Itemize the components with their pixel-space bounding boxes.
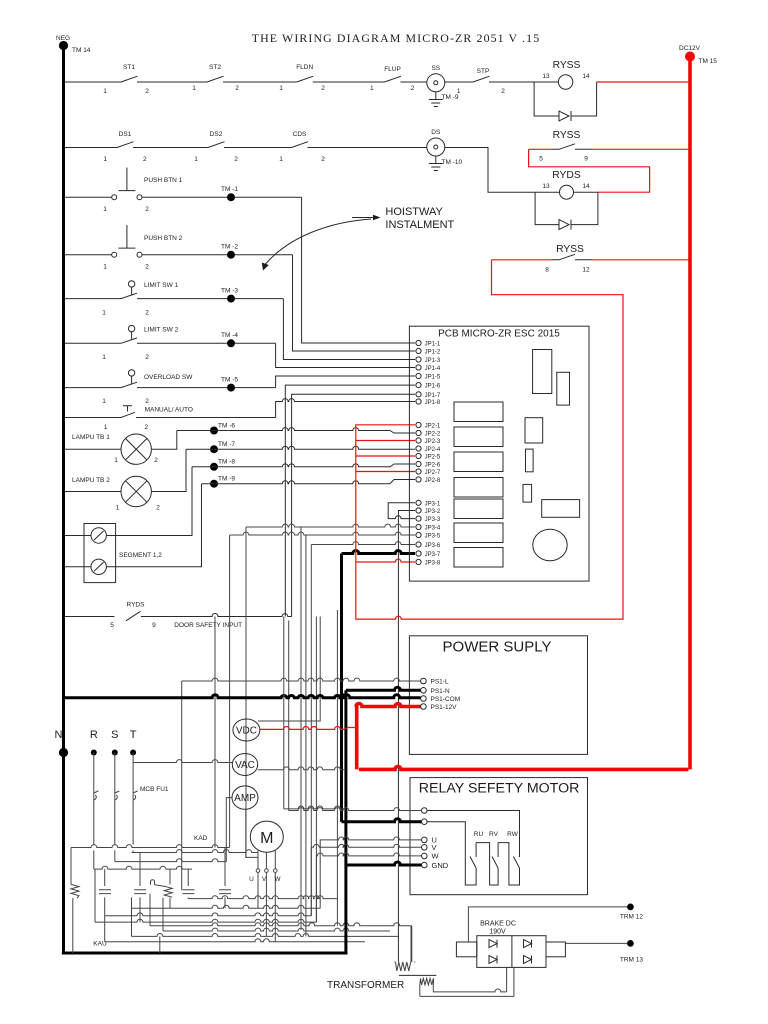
svg-text:JP2-1: JP2-1 bbox=[425, 424, 441, 430]
wire TRM13 to bridge bbox=[565, 942, 627, 944]
wire red loop RYSS(8-12) to PCB JP2 bbox=[356, 260, 623, 619]
wire JP3-4 left riser x246 bbox=[245, 527, 247, 857]
switch MANUAL/AUTO bbox=[65, 406, 276, 431]
svg-text:PS1-COM: PS1-COM bbox=[431, 696, 461, 703]
wire red branch JP2-3 bbox=[356, 440, 415, 442]
svg-text:1: 1 bbox=[102, 310, 106, 317]
svg-text:1: 1 bbox=[279, 156, 283, 163]
svg-text:JP1-7: JP1-7 bbox=[425, 393, 441, 399]
wire TM-8 to JP2-6 bbox=[192, 464, 415, 467]
svg-text:HOISTWAY: HOISTWAY bbox=[385, 206, 443, 218]
component vertical IC U1 bbox=[533, 350, 552, 394]
svg-text:2: 2 bbox=[321, 156, 325, 163]
wire mesh h4 bbox=[94, 866, 192, 869]
lamp LAMPU TB 1 with node TM-6 bbox=[65, 423, 235, 465]
contact RU bbox=[427, 822, 498, 885]
svg-text:1: 1 bbox=[102, 398, 106, 405]
svg-text:PS1-N: PS1-N bbox=[431, 688, 450, 695]
wire TM-3 to JP1-3 bbox=[283, 299, 415, 360]
svg-text:U: U bbox=[249, 876, 254, 883]
svg-text:5: 5 bbox=[539, 156, 543, 163]
svg-text:2: 2 bbox=[145, 264, 149, 271]
svg-text:ST2: ST2 bbox=[209, 64, 221, 71]
transformer TRANSFORMER bbox=[327, 926, 514, 997]
wire AMP left lead bbox=[226, 798, 232, 862]
wire T to VAC bbox=[133, 760, 233, 763]
contact RW bbox=[427, 811, 519, 869]
label U V W motor terminals bbox=[249, 876, 281, 883]
wire JP3-5 left riser x229 bbox=[229, 535, 231, 848]
switch LIMIT SW 1 with node TM-3 bbox=[65, 281, 283, 317]
svg-text:2: 2 bbox=[501, 88, 505, 95]
svg-text:1: 1 bbox=[103, 264, 107, 271]
wire TM-5 to JP1-5 bbox=[276, 376, 415, 388]
svg-text:KAD: KAD bbox=[194, 835, 208, 842]
svg-text:FLUP: FLUP bbox=[384, 66, 401, 73]
svg-text:JP1-4: JP1-4 bbox=[425, 366, 441, 372]
svg-text:2: 2 bbox=[156, 505, 160, 512]
svg-text:RYDS: RYDS bbox=[552, 170, 581, 181]
svg-text:M: M bbox=[260, 830, 273, 847]
wire JP1-7 riser bbox=[292, 394, 415, 616]
wire JP3-1 to JP3-3 link bbox=[388, 503, 415, 519]
svg-text:RYSS: RYSS bbox=[556, 244, 584, 255]
svg-text:2: 2 bbox=[235, 85, 239, 92]
wire JP3-5 row bbox=[230, 532, 415, 535]
svg-text:JP3-3: JP3-3 bbox=[425, 517, 441, 523]
wire MANUAL/AUTO to JP1-8 bbox=[276, 399, 415, 418]
switch DS1 bbox=[103, 131, 147, 163]
contact RYSS (5-9) bbox=[529, 130, 689, 163]
svg-text:TM -6: TM -6 bbox=[218, 423, 235, 430]
svg-text:JP3-5: JP3-5 bbox=[425, 534, 441, 540]
svg-text:TM -9: TM -9 bbox=[442, 94, 459, 101]
meter AMP bbox=[232, 786, 258, 809]
pushbutton PUSH BTN 1 with node TM-1 bbox=[65, 168, 302, 214]
wire mesh r6 bbox=[132, 897, 399, 953]
wire relay c2 thick feed bbox=[342, 819, 422, 822]
terminal T bbox=[130, 729, 137, 793]
wire VAC right branch bbox=[258, 767, 346, 770]
wire red branch JP2-5 bbox=[356, 455, 415, 457]
switch STP bbox=[457, 68, 505, 95]
svg-text:TM -1: TM -1 bbox=[221, 186, 238, 193]
contactor contact KAD-2 bbox=[182, 869, 194, 899]
svg-text:2: 2 bbox=[145, 398, 149, 405]
pushbutton PUSH BTN 2 with node TM-2 bbox=[65, 225, 293, 271]
wire JP3-4 row bbox=[246, 524, 415, 527]
svg-text:1: 1 bbox=[103, 88, 107, 95]
svg-text:2: 2 bbox=[234, 156, 238, 163]
svg-text:TM -10: TM -10 bbox=[442, 159, 463, 166]
sensor DS with ground TM-10 bbox=[427, 129, 463, 171]
svg-text:W: W bbox=[274, 876, 281, 883]
svg-text:1: 1 bbox=[194, 156, 198, 163]
wire riser x337 bbox=[336, 610, 338, 926]
lamp LAMPU TB 2 with node TM-7 bbox=[65, 441, 235, 512]
svg-text:5: 5 bbox=[110, 622, 114, 629]
svg-text:JP1-3: JP1-3 bbox=[425, 358, 441, 364]
svg-text:14: 14 bbox=[582, 73, 590, 80]
svg-text:1: 1 bbox=[103, 206, 107, 213]
resistor KAU heater bbox=[71, 848, 79, 954]
svg-text:TRM 13: TRM 13 bbox=[620, 957, 644, 964]
fuse MCB FU1 (three breakers) bbox=[94, 786, 169, 869]
svg-text:LAMPU TB 2: LAMPU TB 2 bbox=[72, 477, 110, 484]
contactor contact KAD-1 bbox=[134, 853, 146, 923]
svg-text:TRANSFORMER: TRANSFORMER bbox=[327, 980, 404, 991]
wire row1 (safety chain) bbox=[65, 81, 558, 83]
switch FLDN bbox=[279, 64, 325, 92]
svg-text:AMP: AMP bbox=[234, 793, 256, 804]
wire thick bottom corner to transformer area bbox=[344, 865, 347, 953]
svg-text:PUSH BTN 2: PUSH BTN 2 bbox=[144, 235, 183, 242]
svg-text:9: 9 bbox=[152, 622, 156, 629]
node NEG terminal TM14 bbox=[56, 35, 91, 54]
svg-text:9: 9 bbox=[584, 156, 588, 163]
wire PS1-N thick bbox=[346, 687, 421, 865]
wire PS1-L riser bbox=[181, 681, 183, 890]
wire VDC red sense bbox=[260, 727, 357, 730]
svg-text:JP2-2: JP2-2 bbox=[425, 432, 441, 438]
wire riser x320 VDC branch bbox=[258, 617, 320, 722]
svg-text:PS1-12V: PS1-12V bbox=[431, 704, 458, 711]
wire door junction riser x215 bbox=[214, 617, 216, 848]
wire relay c1 feed bbox=[289, 808, 422, 811]
svg-text:JP1-5: JP1-5 bbox=[425, 375, 441, 381]
contact RYDS (5-9) door safety bbox=[65, 602, 292, 630]
svg-text:TM -4: TM -4 bbox=[221, 332, 238, 339]
svg-text:S: S bbox=[111, 729, 118, 741]
svg-text:PUSH BTN 1: PUSH BTN 1 bbox=[144, 177, 183, 184]
node DC12V terminal TM15 bbox=[679, 45, 717, 65]
wire relay GND thick feed bbox=[346, 862, 422, 865]
component vertical IC U2 bbox=[557, 372, 570, 405]
svg-text:2: 2 bbox=[144, 424, 148, 431]
svg-text:JP2-4: JP2-4 bbox=[425, 447, 441, 453]
wire PS1-COM thick from NEG bus bbox=[64, 695, 421, 698]
connector JP3 pins 1-8 bbox=[416, 500, 441, 566]
svg-text:1: 1 bbox=[103, 156, 107, 163]
svg-text:1: 1 bbox=[102, 354, 106, 361]
wire TM-4 to JP1-4 bbox=[276, 343, 415, 367]
IC PCB MICRO-ZR ESC 2015 board outline bbox=[409, 326, 589, 581]
switch FLUP bbox=[370, 66, 415, 92]
svg-text:VDC: VDC bbox=[236, 726, 257, 737]
wire mesh r7 bbox=[105, 916, 365, 942]
svg-text:13: 13 bbox=[542, 73, 550, 80]
wire relay-c1 riser bbox=[288, 621, 290, 811]
svg-text:RELAY SEFETY MOTOR: RELAY SEFETY MOTOR bbox=[419, 781, 580, 797]
wire TM-1 to JP1-1 bbox=[302, 197, 415, 343]
wire NEG bus (left vertical main bus) bbox=[62, 46, 65, 954]
annotation arrow HOISTWAY INSTALMENT bbox=[262, 206, 455, 271]
relay coil RYDS (13-14) with bypass diode bbox=[535, 170, 598, 230]
node TM-9 bbox=[210, 476, 235, 488]
svg-text:LAMPU TB 1: LAMPU TB 1 bbox=[72, 434, 110, 441]
svg-text:JP1-6: JP1-6 bbox=[425, 384, 441, 390]
svg-text:JP2-6: JP2-6 bbox=[425, 463, 441, 469]
svg-text:JP3-6: JP3-6 bbox=[425, 543, 441, 549]
svg-text:PCB MICRO-ZR ESC 2015: PCB MICRO-ZR ESC 2015 bbox=[438, 329, 560, 340]
svg-text:2: 2 bbox=[321, 85, 325, 92]
component rect U3 bbox=[525, 418, 543, 443]
wire TM-9 to JP2-8 bbox=[202, 480, 416, 484]
svg-text:2: 2 bbox=[145, 88, 149, 95]
terminal N bbox=[55, 729, 69, 757]
wire red link contact to RYDS coil bbox=[529, 149, 650, 192]
svg-text:JP1-8: JP1-8 bbox=[425, 400, 441, 406]
switch DS2 bbox=[194, 131, 238, 163]
svg-text:LIMIT SW 2: LIMIT SW 2 bbox=[144, 327, 179, 334]
svg-text:CDS: CDS bbox=[293, 131, 307, 138]
switch OVERLOAD SW with node TM-5 bbox=[65, 370, 276, 405]
svg-text:190V: 190V bbox=[489, 929, 506, 936]
svg-text:1: 1 bbox=[370, 85, 374, 92]
switch CDS bbox=[279, 131, 325, 163]
svg-text:JP2-7: JP2-7 bbox=[425, 470, 441, 476]
svg-text:TM 14: TM 14 bbox=[72, 47, 91, 54]
meter VDC bbox=[233, 719, 260, 741]
relay bank on PCB (7 rectangles) bbox=[454, 402, 503, 567]
svg-text:RYDS: RYDS bbox=[127, 602, 146, 609]
wire mesh r2 bbox=[105, 913, 312, 916]
svg-text:TM -9: TM -9 bbox=[218, 476, 235, 483]
component buzzer circle bbox=[533, 529, 567, 561]
wire mesh r3 bbox=[95, 869, 316, 922]
svg-text:TM -7: TM -7 bbox=[218, 441, 235, 448]
wire AMP to motor U bbox=[246, 809, 258, 857]
contactor contact KAD-3 bbox=[219, 848, 231, 909]
wire JP3-7 thick to power bus bbox=[342, 551, 416, 822]
svg-text:2: 2 bbox=[145, 354, 149, 361]
wire row2 (door chain) bbox=[65, 148, 560, 193]
svg-text:RW: RW bbox=[507, 831, 519, 838]
svg-text:DC12V: DC12V bbox=[679, 45, 701, 52]
module POWER SUPLY box bbox=[409, 636, 587, 755]
connector relay pins bbox=[422, 808, 449, 870]
svg-text:13: 13 bbox=[542, 183, 550, 190]
svg-text:JP2-5: JP2-5 bbox=[425, 455, 441, 461]
meter VAC bbox=[232, 754, 257, 776]
svg-text:14: 14 bbox=[582, 183, 590, 190]
svg-text:MANUAL/ AUTO: MANUAL/ AUTO bbox=[145, 407, 193, 414]
svg-text:W: W bbox=[432, 852, 440, 861]
wire motor lead W bbox=[274, 851, 278, 942]
component small rect U5 bbox=[523, 484, 532, 502]
node TRM 13 bbox=[620, 940, 644, 964]
svg-text:JP3-4: JP3-4 bbox=[425, 526, 441, 532]
wire red branch JP2-7 bbox=[356, 471, 415, 473]
contact RV bbox=[489, 831, 519, 885]
wire motor lead U bbox=[256, 851, 260, 909]
component small rect U4 bbox=[526, 449, 534, 472]
wire PS1-12V thick red bbox=[356, 704, 688, 770]
svg-text:RV: RV bbox=[489, 831, 499, 838]
svg-text:1: 1 bbox=[279, 85, 283, 92]
wire riser x283 bbox=[283, 617, 285, 809]
wire bridge DC legs bbox=[507, 967, 514, 996]
wire VDC black branch bbox=[258, 720, 320, 722]
terminal S bbox=[111, 729, 118, 793]
svg-text:TM -8: TM -8 bbox=[218, 459, 235, 466]
wire mesh r1 bbox=[132, 905, 321, 908]
terminal R bbox=[90, 729, 98, 793]
svg-text:N: N bbox=[55, 729, 63, 741]
svg-text:R: R bbox=[90, 729, 98, 741]
svg-text:JP3-1: JP3-1 bbox=[425, 501, 441, 507]
wire mesh h2 bbox=[132, 850, 259, 853]
svg-text:TM -2: TM -2 bbox=[221, 244, 238, 251]
wire red branch JP3-8 bbox=[356, 559, 415, 562]
svg-text:JP3-8: JP3-8 bbox=[425, 561, 441, 567]
connector PS1 pins bbox=[421, 678, 461, 711]
svg-text:1: 1 bbox=[457, 88, 461, 95]
connector JP1 pins 1-8 bbox=[416, 340, 441, 406]
svg-text:RU: RU bbox=[474, 831, 484, 838]
svg-text:INSTALMENT: INSTALMENT bbox=[385, 219, 454, 231]
svg-text:THE WIRING DIAGRAM MICRO-ZR 20: THE WIRING DIAGRAM MICRO-ZR 2051 V .15 bbox=[252, 31, 541, 45]
svg-text:OVERLOAD SW: OVERLOAD SW bbox=[144, 374, 193, 381]
svg-text:POWER SUPLY: POWER SUPLY bbox=[443, 639, 552, 656]
svg-text:2: 2 bbox=[154, 457, 158, 464]
wire riser x316 bbox=[315, 617, 317, 923]
switch ST1 bbox=[103, 64, 149, 95]
wire TM-2 to JP1-2 bbox=[293, 255, 416, 351]
svg-text:2: 2 bbox=[145, 310, 149, 317]
wire TRM12 to bridge bbox=[468, 907, 627, 942]
wire row amp-row bbox=[284, 806, 346, 809]
svg-text:SS: SS bbox=[431, 65, 440, 72]
svg-text:RYSS: RYSS bbox=[553, 60, 581, 71]
svg-text:TRM 12: TRM 12 bbox=[620, 914, 644, 921]
svg-text:DOOR SAFETY INPUT: DOOR SAFETY INPUT bbox=[174, 622, 242, 629]
svg-text:1: 1 bbox=[104, 424, 108, 431]
switch ST2 bbox=[192, 64, 239, 92]
wire DC12V bus (right vertical red bus) bbox=[688, 57, 692, 770]
display SEGMENT 1,2 bbox=[65, 467, 202, 583]
wire mesh h3 bbox=[115, 859, 227, 862]
svg-text:TM 15: TM 15 bbox=[699, 58, 718, 65]
svg-text:DS1: DS1 bbox=[119, 131, 132, 138]
svg-text:2: 2 bbox=[411, 85, 415, 92]
wire JP3-2 down riser bbox=[398, 511, 415, 963]
wire relay V feed bbox=[311, 844, 421, 915]
svg-text:JP3-2: JP3-2 bbox=[425, 509, 441, 515]
svg-text:TM -5: TM -5 bbox=[221, 377, 238, 384]
svg-text:DS2: DS2 bbox=[210, 131, 223, 138]
svg-text:12: 12 bbox=[582, 267, 590, 274]
wire relay W feed bbox=[316, 853, 421, 922]
wire TM-6 to JP2-2 bbox=[177, 428, 415, 433]
contact RYSS (8-12) bbox=[492, 244, 689, 274]
wire bottom thick bus bbox=[62, 952, 348, 955]
wire motor lead V bbox=[265, 852, 269, 936]
relay coil KAD heater bbox=[151, 869, 173, 908]
wire mesh row kad-out bbox=[188, 896, 337, 899]
svg-text:RYSS: RYSS bbox=[553, 130, 581, 141]
wire JP1-6 to door safety bbox=[285, 385, 415, 616]
relay coil RYSS (13-14) with bypass diode bbox=[534, 60, 597, 121]
wire mesh h1 bbox=[71, 845, 230, 848]
svg-text:JP1-1: JP1-1 bbox=[425, 342, 441, 348]
svg-text:V: V bbox=[262, 876, 267, 883]
module RELAY SEFETY MOTOR box bbox=[410, 778, 588, 895]
svg-text:BRAKE DC: BRAKE DC bbox=[480, 921, 516, 928]
svg-text:JP2-8: JP2-8 bbox=[425, 478, 441, 484]
wire JP3-4 riser down bbox=[300, 527, 302, 930]
wire JP3-6 riser down bbox=[310, 545, 312, 916]
wire row1 red segment to DC12V bus bbox=[597, 81, 689, 83]
node TRM 12 bbox=[620, 904, 644, 921]
svg-text:STP: STP bbox=[477, 68, 490, 75]
svg-text:LIMIT SW 1: LIMIT SW 1 bbox=[144, 282, 179, 289]
svg-text:JP3-7: JP3-7 bbox=[425, 552, 441, 558]
svg-text:GND: GND bbox=[432, 861, 449, 870]
wire mesh r4 to transformer bbox=[150, 894, 411, 962]
svg-text:SEGMENT 1,2: SEGMENT 1,2 bbox=[119, 552, 162, 559]
svg-text:JP2-3: JP2-3 bbox=[425, 439, 441, 445]
component rect U6 bbox=[542, 500, 580, 518]
node TM-8 bbox=[210, 459, 235, 471]
svg-text:ST1: ST1 bbox=[123, 64, 135, 71]
svg-text:8: 8 bbox=[545, 267, 549, 274]
svg-text:2: 2 bbox=[143, 156, 147, 163]
svg-text:1: 1 bbox=[192, 85, 196, 92]
wire JP3-6 row bbox=[311, 542, 415, 545]
svg-text:1: 1 bbox=[114, 457, 118, 464]
svg-text:MCB FU1: MCB FU1 bbox=[140, 786, 169, 793]
wire JP3-5 riser down bbox=[305, 535, 307, 936]
svg-text:1: 1 bbox=[116, 505, 120, 512]
svg-text:VAC: VAC bbox=[235, 760, 255, 771]
contactor contact KAU-1 bbox=[99, 869, 111, 916]
svg-text:JP1-2: JP1-2 bbox=[425, 350, 441, 356]
svg-text:TM -3: TM -3 bbox=[221, 288, 238, 295]
svg-text:T: T bbox=[130, 729, 137, 741]
svg-text:PS1-L: PS1-L bbox=[431, 679, 449, 686]
rectifier BRAKE DC 190V bridge bbox=[456, 921, 565, 968]
switch LIMIT SW 2 with node TM-4 bbox=[65, 325, 276, 361]
wire relay U feed bbox=[320, 837, 421, 908]
connector JP2 pins 1-8 bbox=[416, 422, 441, 484]
sensor SS with ground TM-9 bbox=[427, 65, 459, 107]
wire TM-7 to JP2-4 bbox=[186, 446, 415, 449]
motor M bbox=[250, 821, 283, 852]
wire mesh r5 bbox=[163, 898, 390, 931]
svg-text:DS: DS bbox=[431, 129, 441, 136]
svg-text:FLDN: FLDN bbox=[296, 64, 313, 71]
svg-text:2: 2 bbox=[145, 206, 149, 213]
wire PS1-L line bbox=[182, 678, 421, 681]
